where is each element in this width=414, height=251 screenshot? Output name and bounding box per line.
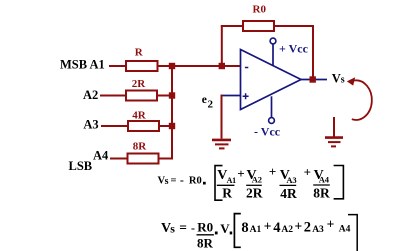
wire A1 to bus [158, 65, 241, 67]
wire A4 input [110, 158, 128, 160]
svg-text:4: 4 [273, 220, 280, 236]
svg-text:A1: A1 [250, 225, 262, 235]
resistor 4R [128, 121, 159, 131]
junction node output [310, 76, 316, 82]
svg-text:+: + [237, 166, 244, 181]
+Vcc stem [272, 44, 274, 66]
svg-text:+: + [327, 217, 335, 232]
wire A3 to bus [159, 125, 172, 127]
op-amp U1 triangle [241, 50, 302, 110]
svg-text:=: = [171, 175, 177, 186]
junction node feedback [219, 63, 225, 69]
svg-text:8R: 8R [133, 141, 148, 153]
svg-text:8R: 8R [313, 186, 330, 201]
op-amp minus input symbol [245, 67, 248, 69]
svg-text:R0: R0 [253, 4, 267, 16]
svg-text:-: - [191, 221, 195, 235]
ground e2 [212, 139, 231, 142]
wire feedback top right [274, 25, 313, 27]
svg-text:V: V [332, 71, 341, 85]
svg-text:- Vcc: - Vcc [254, 125, 281, 139]
svg-text:s: s [341, 74, 345, 85]
equation 1 right bracket [334, 166, 344, 199]
svg-text:+ Vcc: + Vcc [279, 42, 309, 56]
svg-text:8R: 8R [197, 236, 214, 251]
svg-text:4R: 4R [280, 186, 297, 201]
svg-text:A3: A3 [312, 225, 324, 235]
svg-text:A3: A3 [286, 175, 296, 185]
equation 1 left bracket [215, 166, 223, 201]
wire feedback top left [221, 25, 243, 27]
-Vcc stem [271, 96, 273, 117]
resistor R [126, 61, 158, 71]
curved arrow arc [352, 80, 372, 120]
svg-text:A2: A2 [281, 225, 293, 235]
wire feedback left vertical [221, 26, 223, 66]
svg-text:A4: A4 [93, 149, 109, 163]
svg-text:+: + [269, 164, 276, 179]
wire plus input [222, 95, 241, 97]
svg-text:-: - [180, 173, 184, 187]
wire A1 input [109, 65, 126, 67]
wire A2 input [100, 95, 126, 97]
svg-text:LSB: LSB [69, 159, 93, 173]
svg-text:2R: 2R [132, 78, 147, 90]
svg-text:A4: A4 [339, 224, 351, 234]
wire A3 input [101, 125, 128, 127]
wire summing bus [171, 66, 173, 160]
svg-text:A2: A2 [83, 88, 98, 102]
svg-text:4R: 4R [132, 110, 147, 122]
svg-text:R0: R0 [197, 220, 213, 235]
equation 2: Vs = -(R0/8R).V.[8A1+4A2+2A3+A4 [161, 220, 232, 251]
svg-text:R: R [135, 47, 144, 59]
junction node A3/bus [169, 123, 175, 129]
svg-text:A4: A4 [319, 174, 330, 184]
svg-text:s: s [165, 176, 169, 187]
svg-text:=: = [179, 220, 187, 235]
equation 2 left bracket [234, 214, 240, 248]
svg-text:+: + [295, 219, 303, 234]
op-amp plus input symbol [243, 93, 249, 99]
wire op-amp output [301, 79, 327, 81]
svg-text:R: R [222, 186, 232, 201]
junction node A2/bus [169, 92, 175, 98]
equation 2 right corner bracket [348, 215, 357, 251]
svg-text:2R: 2R [246, 186, 263, 201]
junction node A1/bus [169, 63, 175, 69]
svg-text:s: s [170, 222, 175, 236]
wire feedback right vertical [312, 25, 314, 80]
svg-text:V: V [220, 221, 230, 236]
resistor 2R [126, 91, 157, 101]
svg-text:A2: A2 [252, 174, 262, 184]
wire A2 to bus [157, 95, 172, 97]
svg-text:2: 2 [208, 99, 214, 111]
-Vcc terminal circle [269, 118, 275, 124]
svg-text:e: e [202, 94, 207, 106]
svg-text:2: 2 [304, 220, 311, 236]
svg-text:A1: A1 [227, 176, 237, 185]
wire A4 to bus [159, 158, 174, 160]
+Vcc terminal circle [270, 38, 276, 44]
svg-text:A3: A3 [83, 117, 98, 131]
svg-text:MSB A1: MSB A1 [60, 58, 105, 72]
svg-text:R0: R0 [189, 176, 202, 187]
svg-text:+: + [264, 219, 272, 234]
svg-text:+: + [304, 165, 311, 180]
wire e2 to ground [221, 95, 223, 139]
equation 1: Vs = -R0.[VA1/R + VA2/2R + VA3/4R + VA4/8R] [158, 173, 206, 187]
resistor 8R [128, 154, 159, 164]
curved arrow head [347, 77, 355, 85]
resistor R0 [243, 21, 274, 31]
svg-text:8: 8 [241, 220, 248, 236]
ground right [333, 117, 335, 137]
